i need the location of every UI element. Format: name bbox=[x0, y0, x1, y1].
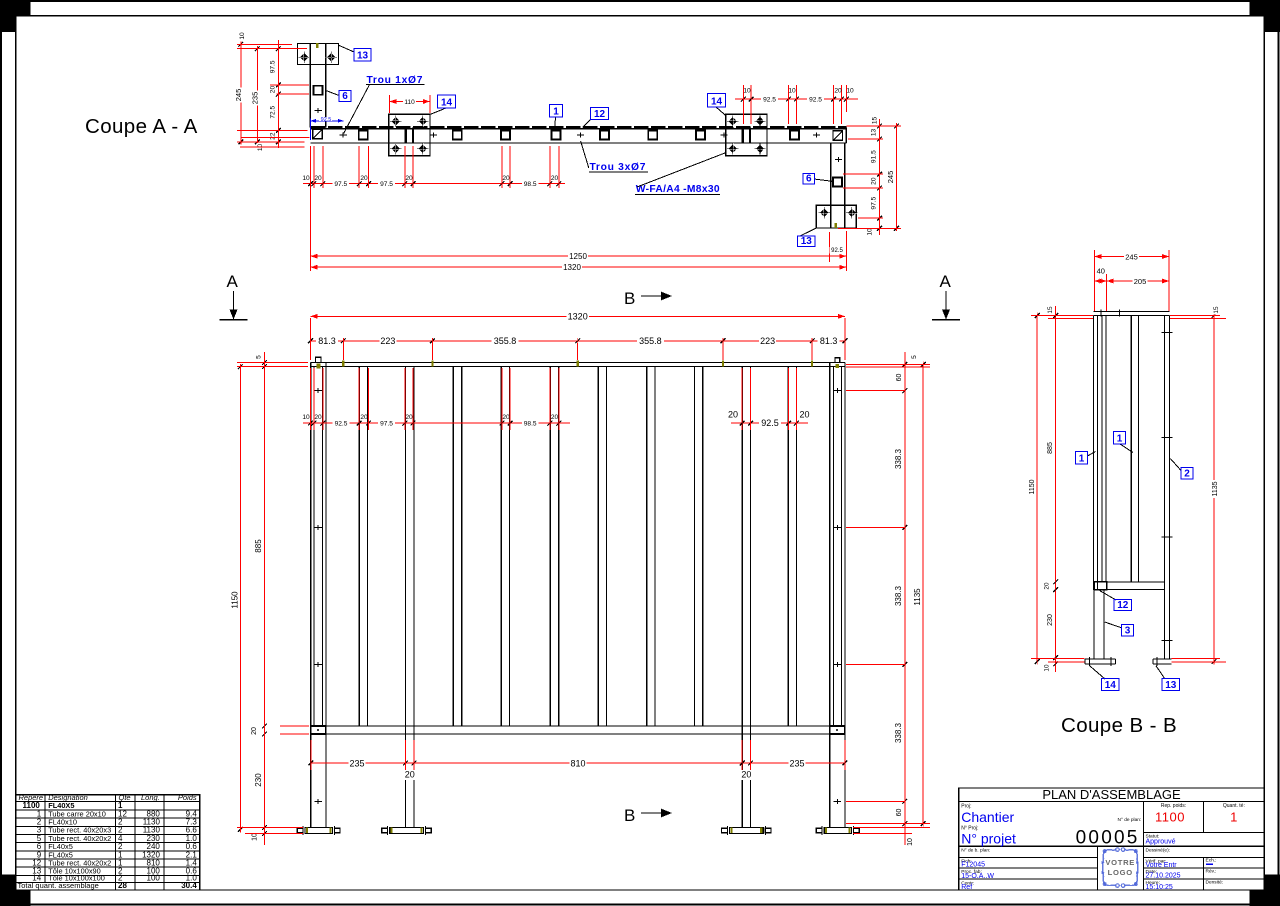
svg-text:2: 2 bbox=[1184, 469, 1190, 480]
svg-text:1: 1 bbox=[553, 107, 559, 118]
weld symbol plate13R a bbox=[819, 207, 830, 218]
svg-text:92.5: 92.5 bbox=[831, 248, 843, 254]
dim 1250 and 1320 bbox=[311, 146, 847, 272]
hole square bar 5 bbox=[600, 130, 609, 139]
svg-text:10: 10 bbox=[846, 87, 854, 94]
svg-text:00005: 00005 bbox=[1076, 828, 1140, 849]
cap plate BB bbox=[1094, 310, 1170, 317]
label box 13 bottom bbox=[798, 228, 817, 247]
snap mark rail x343 bbox=[342, 361, 344, 367]
svg-text:10: 10 bbox=[252, 833, 259, 841]
title block texts lower left bbox=[961, 848, 994, 891]
svg-text:20: 20 bbox=[551, 175, 559, 182]
svg-text:20: 20 bbox=[314, 175, 322, 182]
section marker A left bbox=[220, 272, 248, 320]
snap mark rail x577 bbox=[577, 361, 579, 367]
svg-text:F12045: F12045 bbox=[961, 861, 985, 868]
tube upright right bbox=[742, 367, 750, 828]
svg-text:15:10:25: 15:10:25 bbox=[1146, 884, 1173, 891]
hole cross post left 3 bbox=[315, 663, 322, 665]
svg-text:B: B bbox=[624, 806, 635, 825]
svg-text:810: 810 bbox=[570, 759, 585, 769]
svg-text:20: 20 bbox=[405, 414, 413, 421]
label box 14 BB bbox=[1090, 666, 1119, 691]
base plate left BB bbox=[1085, 657, 1116, 666]
svg-text:20: 20 bbox=[1044, 582, 1051, 590]
bar 8 bbox=[788, 367, 796, 726]
title block grid bbox=[959, 788, 1265, 890]
svg-text:6: 6 bbox=[342, 91, 348, 102]
svg-text:230: 230 bbox=[254, 773, 263, 787]
label box 3 BB bbox=[1105, 622, 1134, 637]
svg-text:1320: 1320 bbox=[563, 263, 581, 272]
svg-text:97.5: 97.5 bbox=[270, 60, 277, 73]
tube upright left bbox=[406, 367, 414, 828]
dim 235 left bbox=[250, 46, 259, 145]
label box 14 left bbox=[430, 95, 456, 115]
svg-text:20: 20 bbox=[834, 87, 842, 94]
svg-text:15: 15 bbox=[872, 117, 879, 125]
dim chain right vertical bbox=[866, 116, 882, 237]
svg-text:10: 10 bbox=[867, 228, 874, 236]
svg-text:N° de plan:: N° de plan: bbox=[1118, 817, 1142, 823]
svg-text:15: 15 bbox=[1213, 306, 1220, 314]
svg-text:92.5: 92.5 bbox=[809, 97, 822, 104]
dim 245-40-205 BB bbox=[1094, 250, 1169, 311]
svg-text:5: 5 bbox=[256, 355, 263, 359]
svg-text:223: 223 bbox=[760, 336, 775, 346]
svg-text:338.3: 338.3 bbox=[894, 722, 903, 743]
dim hole chain bottom bbox=[302, 146, 565, 188]
svg-text:205: 205 bbox=[1134, 277, 1147, 286]
svg-text:60: 60 bbox=[896, 374, 903, 382]
hole square bar 8 bbox=[790, 130, 799, 139]
svg-text:20: 20 bbox=[360, 414, 368, 421]
blue dimension left end bbox=[310, 117, 343, 140]
hole cross post right 4 bbox=[834, 800, 841, 802]
plate 13 left bbox=[297, 44, 338, 65]
dim chain BB left bbox=[1043, 305, 1058, 672]
bar 7 bbox=[694, 367, 702, 726]
hole cross bar 4 bbox=[720, 134, 727, 136]
label box 13 BB bbox=[1156, 666, 1180, 691]
svg-text:20: 20 bbox=[405, 175, 413, 182]
svg-text:6: 6 bbox=[806, 174, 812, 185]
svg-text:20: 20 bbox=[405, 770, 415, 780]
svg-text:885: 885 bbox=[1047, 442, 1054, 454]
svg-text:Coupe B - B: Coupe B - B bbox=[1061, 714, 1177, 737]
svg-text:223: 223 bbox=[380, 336, 395, 346]
svg-text:245: 245 bbox=[1125, 253, 1138, 262]
note Trou 3xO7 bbox=[581, 141, 648, 173]
svg-text:92.5: 92.5 bbox=[321, 117, 332, 123]
svg-text:20: 20 bbox=[251, 727, 258, 735]
svg-text:30.4: 30.4 bbox=[181, 881, 197, 890]
base plate 4 bbox=[816, 826, 859, 835]
dim ext lines left bbox=[237, 44, 310, 147]
snap mark rail x723 bbox=[722, 361, 724, 367]
dim 1150 BB bbox=[1028, 313, 1040, 665]
snap mark rail x432 bbox=[431, 361, 433, 367]
base plate 3 bbox=[722, 826, 772, 835]
svg-text:Densité:: Densité: bbox=[1206, 880, 1224, 886]
weld symbol plate13L b bbox=[326, 52, 337, 63]
svg-text:97.5: 97.5 bbox=[334, 181, 347, 188]
svg-text:1135: 1135 bbox=[913, 588, 922, 606]
section marker B top bbox=[624, 289, 672, 308]
svg-text:10: 10 bbox=[907, 838, 914, 846]
top rail nub right bbox=[835, 358, 840, 363]
label box 2 BB bbox=[1170, 459, 1193, 480]
svg-text:20: 20 bbox=[360, 175, 368, 182]
base plate 2 bbox=[382, 826, 432, 835]
svg-text:100: 100 bbox=[147, 874, 161, 883]
svg-text:20: 20 bbox=[799, 410, 809, 420]
hole cross post right bbox=[835, 159, 842, 161]
dim 245 right bbox=[886, 123, 899, 231]
svg-text:98.5: 98.5 bbox=[524, 181, 537, 188]
dim 245 left bbox=[234, 42, 243, 145]
hole square slashed right bbox=[833, 131, 843, 141]
hole square slashed left bbox=[313, 129, 323, 139]
rail plan outline bbox=[310, 127, 846, 143]
svg-text:14: 14 bbox=[1105, 680, 1117, 691]
svg-text:338.3: 338.3 bbox=[894, 585, 903, 606]
dim 235-810-235 bbox=[308, 740, 847, 780]
hole cross post left 1 bbox=[315, 390, 322, 392]
svg-text:245: 245 bbox=[234, 89, 243, 102]
title block texts top bbox=[961, 787, 1245, 849]
bottom rail end left bbox=[311, 726, 326, 734]
svg-text:Coupe A - A: Coupe A - A bbox=[85, 115, 198, 138]
svg-text:10: 10 bbox=[788, 87, 796, 94]
svg-text:Rep. poids:: Rep. poids: bbox=[1161, 803, 1186, 809]
svg-text:Approuvé: Approuvé bbox=[1146, 838, 1176, 845]
svg-text:20: 20 bbox=[270, 86, 277, 94]
svg-text:10: 10 bbox=[1044, 664, 1051, 672]
svg-text:15: 15 bbox=[1047, 306, 1054, 314]
svg-text:1135: 1135 bbox=[1212, 481, 1219, 496]
svg-text:92.5: 92.5 bbox=[763, 97, 776, 104]
svg-text:20: 20 bbox=[728, 410, 738, 420]
plate 14 left with tube section bbox=[389, 114, 430, 156]
dim label 10 top left bbox=[238, 31, 246, 40]
svg-text:40: 40 bbox=[1097, 267, 1105, 276]
dim ext BB bbox=[1031, 316, 1226, 662]
svg-text:A: A bbox=[227, 272, 239, 291]
post FL section BB bbox=[1094, 316, 1098, 591]
svg-text:10: 10 bbox=[743, 87, 751, 94]
hole cross bar 1 bbox=[340, 134, 347, 136]
svg-text:1: 1 bbox=[1079, 454, 1085, 465]
section marker B bottom bbox=[624, 806, 672, 825]
hole cross post right 3 bbox=[834, 663, 841, 665]
corner mark top-right bbox=[1250, 0, 1280, 32]
dim ext right main bbox=[846, 365, 930, 834]
svg-text:20: 20 bbox=[502, 414, 510, 421]
svg-text:20: 20 bbox=[741, 770, 751, 780]
svg-text:14: 14 bbox=[711, 97, 723, 108]
svg-text:1100: 1100 bbox=[1155, 810, 1185, 825]
svg-text:Ech.:: Ech.: bbox=[1206, 857, 1217, 863]
dim 1150 left bbox=[231, 364, 243, 832]
svg-text:1150: 1150 bbox=[231, 591, 240, 609]
label box 6 left bbox=[326, 91, 351, 103]
dim chain 81.3-223-355.8 main bbox=[308, 336, 847, 360]
hole cross bar 2 bbox=[430, 134, 437, 136]
svg-text:245: 245 bbox=[886, 171, 895, 184]
svg-text:Rév.:: Rév.: bbox=[1206, 868, 1217, 874]
plate 13 right bbox=[816, 205, 856, 228]
svg-text:Total quant. assemblage: Total quant. assemblage bbox=[18, 881, 99, 890]
hole cross post left bbox=[315, 109, 322, 111]
dim 1135 BB bbox=[1211, 305, 1220, 664]
post left bbox=[311, 363, 326, 828]
svg-text:20: 20 bbox=[314, 414, 322, 421]
svg-text:Trou 3xØ7: Trou 3xØ7 bbox=[590, 162, 647, 173]
svg-text:235: 235 bbox=[789, 759, 804, 769]
hole cross bar 3 bbox=[577, 134, 584, 136]
note Trou 1xO7 bbox=[344, 75, 425, 134]
svg-text:12: 12 bbox=[594, 109, 606, 120]
svg-text:230: 230 bbox=[1047, 614, 1054, 626]
dim chain right main bbox=[894, 352, 918, 847]
svg-text:60: 60 bbox=[896, 809, 903, 817]
svg-text:338.3: 338.3 bbox=[894, 448, 903, 469]
label box 14 right bbox=[708, 94, 727, 117]
corner mark bottom-left bbox=[0, 875, 31, 906]
svg-text:98.5: 98.5 bbox=[524, 421, 537, 428]
title block texts lower right bbox=[1146, 848, 1224, 891]
svg-text:13: 13 bbox=[801, 236, 813, 247]
weld mark olive 13R bbox=[835, 223, 837, 228]
corner mark bottom-right bbox=[1250, 875, 1280, 906]
hole cross post left 2 bbox=[315, 527, 322, 529]
svg-text:Dessiné(e):: Dessiné(e): bbox=[1146, 848, 1171, 854]
svg-text:14: 14 bbox=[441, 98, 453, 109]
bar 6 bbox=[647, 367, 655, 726]
svg-text:Chantier: Chantier bbox=[961, 809, 1014, 825]
label box 12 BB bbox=[1100, 591, 1132, 612]
bottom rail end right bbox=[830, 726, 845, 734]
svg-text:A: A bbox=[940, 272, 952, 291]
svg-text:Votre Entr: Votre Entr bbox=[1146, 862, 1178, 869]
base plate 1 bbox=[297, 826, 340, 835]
svg-text:20: 20 bbox=[551, 414, 559, 421]
svg-text:1250: 1250 bbox=[569, 252, 587, 261]
svg-text:LOGO: LOGO bbox=[1108, 868, 1133, 877]
svg-text:VOTRE: VOTRE bbox=[1105, 858, 1135, 867]
svg-text:13: 13 bbox=[1165, 680, 1177, 691]
parts table grid bbox=[16, 795, 200, 890]
hole square post right bbox=[833, 177, 842, 186]
dim bar spacing main bbox=[302, 368, 810, 430]
label box 1 bbox=[550, 105, 563, 128]
svg-text:81.3: 81.3 bbox=[820, 336, 838, 346]
svg-text:235: 235 bbox=[349, 759, 364, 769]
post left plan bbox=[310, 44, 326, 128]
section marker A right bbox=[932, 272, 960, 320]
label box 1 BB a bbox=[1076, 452, 1096, 465]
svg-text:27.10.2025: 27.10.2025 bbox=[1146, 872, 1181, 879]
svg-text:110: 110 bbox=[404, 99, 415, 106]
bottom rail BB bbox=[1094, 582, 1165, 590]
label box 1 BB b bbox=[1114, 432, 1134, 453]
svg-text:B: B bbox=[624, 289, 635, 308]
svg-text:13: 13 bbox=[357, 51, 369, 62]
svg-text:Ref: Ref bbox=[961, 884, 972, 891]
svg-text:97.5: 97.5 bbox=[871, 196, 878, 209]
svg-text:10: 10 bbox=[239, 32, 246, 40]
post right bbox=[830, 363, 845, 828]
svg-text:20: 20 bbox=[871, 177, 878, 185]
rear member BB bbox=[1162, 316, 1173, 660]
hole square bar 7 bbox=[696, 130, 705, 139]
hole square bar 4 bbox=[551, 130, 560, 139]
svg-text:13: 13 bbox=[871, 129, 878, 137]
svg-text:Quant. té:: Quant. té: bbox=[1223, 803, 1245, 809]
dim 1320 main bbox=[311, 312, 846, 361]
bar 5 bbox=[598, 367, 606, 726]
parts table text bbox=[18, 793, 198, 890]
svg-text:Poids: Poids bbox=[178, 793, 197, 802]
bar 2 bbox=[453, 367, 461, 726]
hole square bar 6 bbox=[648, 130, 657, 139]
hole square bar 1 bbox=[359, 130, 368, 139]
svg-text:1: 1 bbox=[1117, 434, 1123, 445]
label box 13 top bbox=[339, 45, 371, 61]
top rail bbox=[311, 363, 845, 367]
svg-text:W-FA/A4 -M8x30: W-FA/A4 -M8x30 bbox=[636, 184, 720, 195]
label box 6 right bbox=[803, 174, 834, 185]
hole square post left bbox=[314, 86, 323, 95]
svg-text:91.5: 91.5 bbox=[871, 150, 878, 163]
svg-text:885: 885 bbox=[254, 539, 263, 553]
weld mark olive 13L bbox=[316, 43, 318, 48]
svg-text:Long.: Long. bbox=[141, 793, 160, 802]
weld mark rail left bbox=[316, 364, 320, 369]
post right plan bbox=[831, 143, 845, 228]
hole cross bar 5 bbox=[813, 134, 820, 136]
svg-text:72.5: 72.5 bbox=[270, 106, 277, 119]
corner mark top-left bbox=[0, 0, 31, 32]
svg-text:20: 20 bbox=[502, 175, 510, 182]
dim chain left main bbox=[250, 352, 267, 845]
bar in post right bbox=[834, 367, 842, 726]
dim hole chain top right bbox=[735, 85, 858, 124]
svg-text:PLAN D'ASSEMBLAGE: PLAN D'ASSEMBLAGE bbox=[1042, 787, 1181, 802]
bar 1 bbox=[359, 367, 367, 726]
note W-FA/A4-M8x30 bbox=[635, 153, 726, 196]
bar 3 bbox=[501, 367, 509, 726]
svg-text:28: 28 bbox=[118, 881, 127, 890]
svg-text:10: 10 bbox=[302, 414, 310, 421]
svg-text:22: 22 bbox=[270, 132, 277, 140]
svg-text:N° projet: N° projet bbox=[961, 831, 1016, 847]
svg-text:10: 10 bbox=[302, 175, 310, 182]
weld mark rail right bbox=[836, 364, 839, 368]
bar 4 bbox=[550, 367, 558, 726]
svg-text:97.5: 97.5 bbox=[380, 181, 393, 188]
svg-text:1: 1 bbox=[1230, 810, 1237, 825]
bar section BB bbox=[1102, 316, 1106, 582]
leg BB bbox=[1094, 590, 1104, 660]
weld symbol plate13L a bbox=[299, 52, 310, 63]
svg-text:3: 3 bbox=[1125, 626, 1131, 637]
snap mark rail x812 bbox=[811, 361, 813, 367]
bottom rail bbox=[311, 726, 845, 734]
base plate right BB bbox=[1153, 657, 1172, 666]
svg-text:1320: 1320 bbox=[568, 312, 588, 322]
svg-text:235: 235 bbox=[250, 92, 259, 105]
dim ext lines right bbox=[838, 126, 901, 228]
label box 12 bbox=[583, 108, 609, 128]
svg-text:1150: 1150 bbox=[1029, 479, 1036, 494]
svg-text:5: 5 bbox=[911, 355, 918, 359]
hole cross post left 4 bbox=[315, 800, 322, 802]
top rail nub left bbox=[316, 357, 322, 362]
svg-text:92.5: 92.5 bbox=[761, 418, 779, 428]
hole square bar 2 bbox=[453, 130, 462, 139]
dim 1135 right bbox=[913, 362, 926, 827]
hole square bar 3 bbox=[501, 130, 510, 139]
logo votre logo bbox=[1102, 848, 1139, 888]
plate 14 right with tube section bbox=[726, 114, 767, 156]
tube section BB bbox=[1131, 316, 1138, 582]
svg-text:N° de b. plan:: N° de b. plan: bbox=[961, 848, 990, 854]
hole cross post right 1 bbox=[834, 390, 841, 392]
hole cross post right 2 bbox=[834, 527, 841, 529]
dim 110 plate14L bbox=[389, 95, 430, 113]
dim chain left bbox=[256, 40, 280, 152]
svg-text:15-O.A..W: 15-O.A..W bbox=[961, 873, 994, 880]
bar in post left bbox=[314, 367, 323, 726]
svg-text:12: 12 bbox=[1117, 600, 1129, 611]
svg-text:92.5: 92.5 bbox=[335, 421, 348, 428]
dim ext left main bbox=[237, 363, 309, 834]
svg-text:355.8: 355.8 bbox=[494, 336, 517, 346]
svg-text:355.8: 355.8 bbox=[639, 336, 662, 346]
svg-text:97.5: 97.5 bbox=[380, 421, 393, 428]
weld symbol plate13R b bbox=[846, 207, 857, 218]
svg-text:81.3: 81.3 bbox=[318, 336, 336, 346]
